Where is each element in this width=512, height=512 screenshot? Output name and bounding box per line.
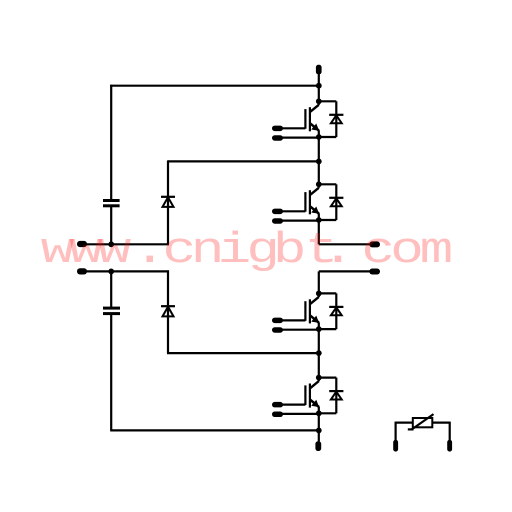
diode D1 (antiparallel)	[319, 101, 344, 137]
gate terminal G4	[272, 402, 283, 408]
wire AC out rail 1	[319, 243, 370, 245]
transistor Q4	[305, 375, 321, 416]
svg-text:b: b	[273, 226, 307, 276]
kelvin emitter terminal E2	[272, 218, 283, 224]
watermark www.cnigbt.com	[41, 226, 454, 276]
gate terminal G1	[272, 126, 283, 132]
transistor Q2	[305, 181, 321, 223]
terminal RT1 pin 2	[447, 440, 452, 452]
gate terminal G3	[272, 318, 283, 324]
gate terminal G2	[272, 209, 283, 215]
wire rail2 left	[87, 270, 170, 272]
kelvin emitter terminal E3	[272, 327, 283, 333]
svg-text:m: m	[420, 226, 454, 276]
wire bus segment 2	[318, 130, 320, 188]
wire kelvin emitter lead	[283, 137, 319, 139]
terminal DC- (bottom)	[315, 441, 321, 451]
node mid junction 2	[316, 350, 322, 356]
wire	[449, 422, 451, 441]
kelvin emitter terminal E1	[272, 135, 283, 141]
capacitor C1	[103, 199, 120, 207]
transistor Q3	[305, 291, 321, 333]
wire gate lead	[283, 210, 306, 212]
kelvin emitter terminal E4	[272, 412, 283, 418]
wire top rail	[110, 85, 319, 87]
wire kelvin emitter lead	[283, 329, 319, 331]
wire AC out rail 2	[319, 270, 370, 272]
wire	[110, 207, 112, 244]
terminal RT1 pin 1	[393, 440, 398, 452]
diode D5	[161, 197, 175, 207]
wire	[167, 352, 319, 354]
terminal mid-right 2	[369, 269, 380, 275]
terminal mid-right 1	[369, 241, 380, 247]
diode D3 (antiparallel)	[319, 293, 344, 329]
capacitor C2	[103, 307, 120, 316]
thermistor RT1	[408, 414, 434, 429]
node C1/rail1 junction	[108, 241, 114, 247]
transistor Q1	[305, 98, 321, 140]
node top rail junction	[316, 83, 322, 89]
wire	[395, 422, 397, 441]
wire gate lead	[283, 404, 306, 406]
wire rail1 left	[87, 243, 170, 245]
wire	[396, 422, 413, 424]
terminal DC+ (top)	[316, 65, 322, 75]
wire	[110, 315, 112, 430]
svg-text:w: w	[98, 226, 132, 276]
wire bus segment 6	[318, 407, 320, 442]
wire bottom rail	[110, 429, 319, 431]
wire	[110, 271, 112, 307]
wire bus segment 4	[318, 271, 320, 297]
wire gate lead	[283, 127, 306, 129]
wire bus segment 3	[318, 213, 320, 244]
diode D2 (antiparallel)	[319, 184, 344, 220]
node bottom junction	[316, 428, 322, 434]
wire kelvin emitter lead	[283, 413, 319, 415]
wire	[110, 85, 112, 200]
node mid junction 1	[316, 159, 322, 165]
wire	[167, 270, 169, 353]
terminal mid-left 1	[77, 241, 87, 247]
diode D4 (antiparallel)	[319, 378, 344, 414]
wire	[318, 74, 320, 105]
wire bus segment 5	[318, 322, 320, 381]
wire	[432, 422, 449, 424]
wire	[167, 160, 169, 244]
node C2/rail2 junction	[108, 269, 114, 275]
wire kelvin emitter lead	[283, 220, 319, 222]
terminal mid-left 2	[77, 268, 87, 274]
svg-text:.: .	[321, 226, 355, 276]
diode D6	[161, 306, 175, 316]
wire	[168, 160, 319, 162]
wire gate lead	[283, 319, 306, 321]
